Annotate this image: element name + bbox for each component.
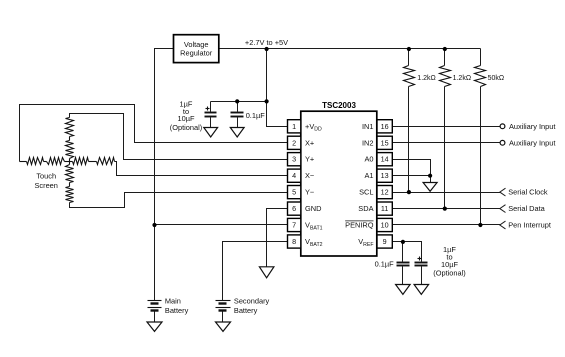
svg-text:2: 2 bbox=[292, 138, 296, 147]
svg-text:14: 14 bbox=[381, 155, 389, 164]
svg-text:1.2kΩ: 1.2kΩ bbox=[453, 75, 471, 82]
svg-text:Serial Data: Serial Data bbox=[508, 204, 545, 213]
svg-text:5: 5 bbox=[292, 188, 296, 197]
svg-text:10: 10 bbox=[381, 221, 389, 230]
svg-text:3: 3 bbox=[292, 155, 296, 164]
svg-text:15: 15 bbox=[381, 138, 389, 147]
svg-text:0.1µF: 0.1µF bbox=[246, 111, 266, 120]
svg-text:X+: X+ bbox=[305, 138, 314, 147]
svg-text:12: 12 bbox=[381, 188, 389, 197]
svg-text:10µF: 10µF bbox=[178, 114, 195, 123]
svg-text:Auxiliary Input: Auxiliary Input bbox=[509, 122, 555, 131]
svg-text:A0: A0 bbox=[364, 155, 373, 164]
svg-text:8: 8 bbox=[292, 237, 296, 246]
svg-text:Screen: Screen bbox=[34, 181, 57, 190]
svg-text:Serial Clock: Serial Clock bbox=[508, 188, 548, 197]
svg-text:X−: X− bbox=[305, 171, 314, 180]
svg-text:1.2kΩ: 1.2kΩ bbox=[417, 75, 435, 82]
svg-text:IN1: IN1 bbox=[362, 122, 374, 131]
svg-text:13: 13 bbox=[381, 171, 389, 180]
svg-text:Battery: Battery bbox=[165, 306, 189, 315]
svg-text:(Optional): (Optional) bbox=[170, 123, 202, 132]
svg-text:6: 6 bbox=[292, 204, 296, 213]
svg-text:4: 4 bbox=[292, 171, 296, 180]
svg-text:9: 9 bbox=[383, 237, 387, 246]
svg-text:Regulator: Regulator bbox=[180, 48, 213, 57]
svg-text:0.1µF: 0.1µF bbox=[375, 259, 395, 268]
svg-text:PENIRQ: PENIRQ bbox=[345, 221, 374, 230]
svg-text:+2.7V to +5V: +2.7V to +5V bbox=[245, 38, 288, 47]
svg-text:Auxiliary Input: Auxiliary Input bbox=[509, 138, 555, 147]
svg-text:Pen Interrupt: Pen Interrupt bbox=[508, 221, 551, 230]
svg-text:16: 16 bbox=[381, 122, 389, 131]
svg-text:GND: GND bbox=[305, 204, 321, 213]
svg-text:7: 7 bbox=[292, 221, 296, 230]
svg-text:SDA: SDA bbox=[358, 204, 373, 213]
svg-text:Y−: Y− bbox=[305, 188, 314, 197]
svg-text:Main: Main bbox=[165, 297, 181, 306]
svg-text:Touch: Touch bbox=[36, 172, 56, 181]
svg-text:Secondary: Secondary bbox=[234, 297, 270, 306]
svg-text:Y+: Y+ bbox=[305, 155, 314, 164]
svg-text:11: 11 bbox=[381, 204, 388, 213]
svg-text:TSC2003: TSC2003 bbox=[322, 101, 356, 110]
svg-text:Battery: Battery bbox=[234, 306, 258, 315]
svg-text:A1: A1 bbox=[364, 171, 373, 180]
svg-text:(Optional): (Optional) bbox=[433, 269, 465, 278]
svg-text:IN2: IN2 bbox=[362, 138, 374, 147]
svg-text:1: 1 bbox=[292, 122, 296, 131]
svg-text:SCL: SCL bbox=[359, 188, 373, 197]
svg-text:50kΩ: 50kΩ bbox=[488, 75, 505, 82]
